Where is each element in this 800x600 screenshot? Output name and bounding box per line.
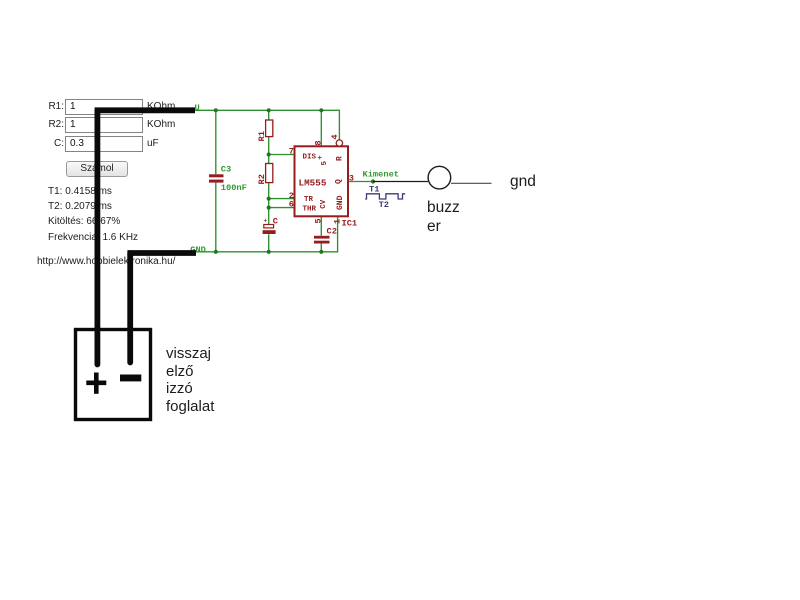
svg-text:R: R	[335, 156, 344, 161]
svg-text:Q: Q	[334, 179, 343, 184]
svg-text:R1: R1	[257, 131, 267, 141]
svg-text:C3: C3	[221, 164, 231, 174]
svg-text:DIS: DIS	[303, 154, 317, 162]
svg-text:U: U	[195, 103, 200, 113]
svg-text:+: +	[264, 218, 268, 225]
svg-text:TR: TR	[304, 196, 314, 204]
svg-text:T1: T1	[369, 184, 379, 194]
svg-text:4: 4	[330, 134, 340, 139]
svg-text:R2: R2	[257, 174, 267, 184]
svg-text:Kimenet: Kimenet	[363, 169, 400, 179]
svg-text:5: 5	[321, 161, 329, 166]
svg-text:GND: GND	[336, 195, 345, 210]
svg-text:C2: C2	[327, 227, 337, 237]
svg-text:6: 6	[289, 200, 294, 210]
svg-text:1: 1	[333, 219, 343, 224]
svg-text:IC1: IC1	[342, 218, 358, 228]
svg-text:5: 5	[313, 218, 323, 223]
svg-text:3: 3	[349, 174, 354, 184]
svg-text:T2: T2	[379, 200, 389, 210]
svg-text:7: 7	[289, 147, 294, 157]
svg-text:THR: THR	[303, 206, 317, 214]
svg-text:8: 8	[314, 140, 324, 145]
svg-text:CV: CV	[320, 199, 328, 209]
svg-text:100nF: 100nF	[221, 183, 247, 193]
svg-text:C: C	[273, 216, 278, 226]
svg-text:LM555: LM555	[299, 177, 327, 188]
